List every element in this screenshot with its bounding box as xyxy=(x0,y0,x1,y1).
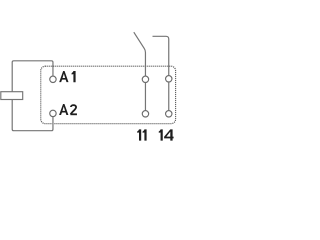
label A2 xyxy=(59,104,68,115)
coil box xyxy=(1,92,23,100)
switch arm from pin 11 xyxy=(134,32,146,76)
wire 11 xyxy=(144,83,146,111)
terminal 14 bottom circle xyxy=(166,111,172,117)
contact 14 top circle xyxy=(166,76,172,82)
fixed contact 14 lead xyxy=(153,36,169,75)
terminal A2 xyxy=(50,110,56,116)
wire 14 xyxy=(168,82,170,111)
label A1 xyxy=(59,71,75,82)
terminal 11 bottom circle xyxy=(142,111,148,117)
terminal A1 xyxy=(50,76,56,82)
label 14 xyxy=(159,129,174,140)
label 11 xyxy=(137,129,146,140)
relay outline dashed box xyxy=(41,66,176,123)
wire A1 to coil xyxy=(12,61,53,92)
wire A2 to coil xyxy=(12,99,53,131)
contact 11 top circle xyxy=(142,76,148,82)
